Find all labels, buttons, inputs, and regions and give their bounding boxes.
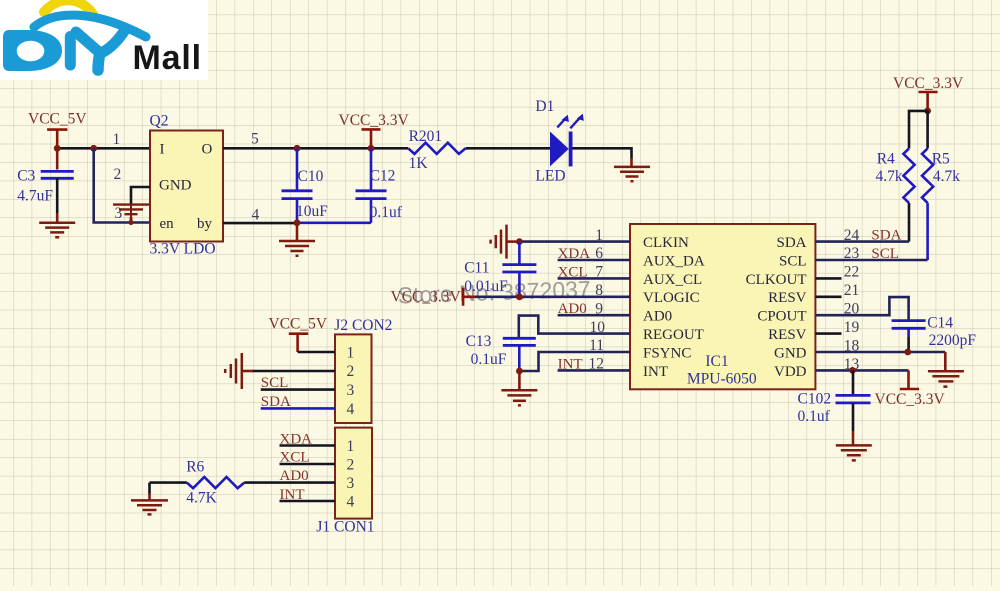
wire VCC to R4 (909, 111, 928, 148)
svg-text:5: 5 (251, 131, 259, 148)
wire SDA pin24 (815, 240, 909, 243)
power flag VCC_5V at J2 (269, 316, 328, 352)
voltage regulator Q2 (150, 112, 224, 257)
svg-text:CPOUT: CPOUT (757, 309, 806, 325)
junction dot B (90, 145, 97, 152)
wire RESV pin21 stub (815, 295, 841, 298)
svg-text:1K: 1K (409, 155, 429, 172)
wire VLOGIC pin8 (475, 295, 630, 298)
wire LED cathode to ground (573, 148, 632, 158)
junction dot CLKIN (516, 238, 523, 245)
power flag VCC_3.3V at VLOGIC (391, 288, 477, 306)
wire CLKOUT pin22 stub (815, 277, 841, 280)
svg-text:by: by (197, 216, 213, 232)
svg-text:INT: INT (643, 364, 668, 380)
resistor R4 (876, 148, 915, 203)
svg-text:4.7K: 4.7K (186, 490, 217, 507)
svg-text:2: 2 (113, 166, 121, 183)
wire 3.3V rail from Q2 pin5 (223, 147, 408, 150)
ground at CLKIN (491, 225, 520, 259)
net label INT at J1 (280, 487, 305, 503)
svg-text:LED: LED (535, 168, 565, 185)
junction dot C10 top (294, 145, 301, 152)
svg-text:CLKOUT: CLKOUT (746, 272, 807, 288)
svg-text:C3: C3 (17, 167, 35, 184)
capacitor C3 (17, 148, 73, 213)
svg-text:C10: C10 (298, 168, 324, 185)
svg-text:XCL: XCL (280, 450, 310, 466)
svg-text:4.7k: 4.7k (876, 168, 903, 185)
junction dot C102 top (849, 367, 856, 374)
capacitor C14 (892, 315, 977, 353)
net label SCL right (871, 246, 899, 262)
resistor R6 (186, 459, 244, 507)
svg-text:RESV: RESV (768, 327, 807, 343)
svg-text:VLOGIC: VLOGIC (643, 290, 700, 306)
wire J2 pin4 SDA (261, 407, 335, 410)
pin number 3 of Q2 (115, 205, 123, 222)
pin number 1 of Q2 (113, 131, 121, 148)
junction dot C10 bottom (294, 219, 301, 226)
junction dot A (54, 145, 61, 152)
capacitor C13 (466, 333, 536, 371)
svg-text:D1: D1 (535, 98, 554, 115)
wire VDD pin13 (815, 369, 908, 372)
net label AD0 at IC (558, 301, 587, 317)
wire VCC to R5 (926, 111, 929, 148)
logo DIYmall (0, 0, 208, 80)
LED D1 (535, 98, 583, 185)
svg-text:21: 21 (844, 282, 860, 299)
svg-text:CLKIN: CLKIN (643, 235, 689, 251)
wire AD0 pin9 (558, 314, 630, 317)
svg-text:VCC_3.3V: VCC_3.3V (893, 75, 964, 92)
ground below C102 (836, 431, 872, 460)
junction dot VCC top right (924, 108, 931, 115)
wire en net vertical (94, 148, 150, 222)
power flag VCC_3.3V above C12 (339, 112, 410, 149)
power flag VCC_3.3V top right (893, 75, 964, 111)
svg-text:2200pF: 2200pF (929, 332, 977, 349)
svg-text:J2 CON2: J2 CON2 (334, 317, 392, 334)
wire J1 pin2 (280, 463, 336, 466)
pin number 4 of Q2 (252, 207, 260, 224)
svg-text:J1 CON1: J1 CON1 (316, 519, 374, 536)
capacitor C10 (282, 148, 329, 223)
pin number 2 of Q2 (113, 166, 121, 183)
ground left of R6 (131, 493, 168, 514)
wire Q2 pin2 to ground (131, 187, 150, 205)
wire REGOUT pin10 jog to C13 (519, 316, 630, 339)
power flag VCC_3.3V bottom right (875, 370, 946, 408)
svg-text:0.1uf: 0.1uf (798, 408, 831, 425)
svg-text:19: 19 (844, 319, 860, 336)
connector J1 CON1 (316, 428, 374, 536)
svg-text:0.01uF: 0.01uF (464, 278, 508, 295)
svg-text:C102: C102 (798, 390, 832, 407)
svg-text:2: 2 (347, 363, 355, 380)
wire R5 bottom to SCL (926, 203, 929, 260)
wire CLKIN pin1 (519, 240, 630, 243)
net label SCL at J2 (261, 375, 289, 391)
connector J2 CON2 (334, 317, 392, 423)
wire INT pin12 (558, 369, 630, 372)
net label XCL at IC (558, 264, 588, 280)
wire node VCC_5V rail (57, 147, 150, 150)
wire Q2 pin4 by to C10 bottom (223, 222, 297, 225)
svg-text:4: 4 (347, 401, 355, 418)
svg-text:0.1uF: 0.1uF (471, 351, 507, 368)
pin numbers left of IC1 (589, 227, 606, 373)
pin number 5 of Q2 (251, 131, 259, 148)
wire J1 pin4 (280, 500, 336, 503)
svg-text:AUX_CL: AUX_CL (643, 272, 702, 288)
svg-text:4.7uF: 4.7uF (17, 187, 53, 204)
svg-text:3: 3 (347, 475, 355, 492)
svg-text:I: I (160, 142, 165, 158)
wire J2 pin1 (298, 351, 335, 354)
wire GND pin18 (815, 351, 945, 354)
junction dot C11 bottom (516, 293, 523, 300)
svg-text:R201: R201 (409, 128, 443, 145)
ground below C3 (39, 213, 75, 237)
wire AUX_DA pin6 (558, 259, 630, 262)
svg-text:IC1: IC1 (705, 353, 728, 370)
svg-text:AUX_DA: AUX_DA (643, 253, 705, 269)
svg-text:AD0: AD0 (643, 309, 672, 325)
svg-text:VCC_5V: VCC_5V (28, 111, 87, 128)
svg-text:2: 2 (347, 456, 355, 473)
svg-text:4.7k: 4.7k (933, 168, 960, 185)
net label AD0 at J1 (280, 468, 309, 484)
svg-text:VDD: VDD (774, 364, 807, 380)
svg-text:VCC_3.3V: VCC_3.3V (875, 391, 946, 408)
svg-text:3: 3 (347, 382, 355, 399)
svg-text:SDA: SDA (776, 235, 806, 251)
svg-text:R6: R6 (186, 459, 204, 476)
svg-text:0.1uf: 0.1uf (370, 204, 403, 221)
capacitor C12 (356, 148, 403, 223)
svg-text:GND: GND (159, 178, 192, 194)
svg-text:MPU-6050: MPU-6050 (687, 371, 757, 388)
svg-text:VCC_3.3V: VCC_3.3V (391, 288, 462, 305)
svg-text:INT: INT (280, 487, 305, 503)
svg-text:SCL: SCL (261, 375, 289, 391)
ground right of LED (614, 158, 650, 181)
net label SDA at J2 (261, 394, 291, 410)
wire R6 to J1 pin3 (244, 481, 335, 484)
power flag VCC_5V (28, 111, 87, 149)
svg-text:1: 1 (347, 344, 355, 361)
wire J2 pin3 SCL (261, 388, 335, 391)
svg-text:en: en (160, 216, 175, 232)
net label XDA at IC (558, 246, 591, 262)
wire RESV pin19 stub (815, 332, 841, 335)
wire SCL pin23 (815, 259, 927, 262)
wire FSYNC pin11 jog to C13 bottom (519, 352, 630, 371)
svg-text:C14: C14 (927, 315, 953, 332)
svg-text:3: 3 (115, 205, 123, 222)
svg-text:C11: C11 (464, 260, 489, 277)
resistor R201 (408, 128, 465, 172)
svg-text:VCC_5V: VCC_5V (269, 316, 328, 333)
svg-text:R4: R4 (877, 151, 895, 168)
capacitor C102 (798, 370, 871, 431)
capacitor C11 (464, 242, 536, 297)
svg-text:C13: C13 (466, 333, 492, 350)
net label XCL at J1 (280, 450, 310, 466)
wire AUX_CL pin7 (558, 277, 630, 280)
wire R4 bottom to SDA (908, 203, 911, 242)
junction dot C14 bottom (904, 349, 911, 356)
wire C10 bottom to C12 bottom (297, 222, 371, 225)
IC U1 MPU-6050 (630, 224, 815, 389)
wire J1 pin1 (280, 444, 336, 447)
net label SDA right (871, 228, 901, 244)
svg-text:O: O (202, 142, 213, 158)
wire ground to R6 (150, 483, 187, 495)
wire CPOUT pin20 jog to C14 (815, 297, 908, 321)
svg-text:3.3V LDO: 3.3V LDO (150, 240, 216, 257)
net label XDA at J1 (280, 432, 313, 448)
svg-text:Mall: Mall (133, 39, 202, 77)
ground below C13 (501, 371, 537, 405)
ground at Q2 pin2 (113, 205, 149, 225)
svg-text:GND: GND (774, 345, 807, 361)
svg-text:4: 4 (347, 493, 355, 510)
ground at J2 pin2 (225, 353, 253, 389)
junction dot C13 bottom (516, 368, 523, 375)
svg-text:22: 22 (844, 264, 860, 281)
svg-text:4: 4 (252, 207, 260, 224)
svg-text:R5: R5 (932, 151, 950, 168)
svg-text:VCC_3.3V: VCC_3.3V (339, 112, 410, 129)
ground at pin18 (928, 352, 964, 387)
junction dot C12 top (368, 145, 375, 152)
svg-text:Q2: Q2 (150, 112, 169, 129)
ground below C10 (279, 223, 315, 256)
svg-text:1: 1 (347, 438, 355, 455)
pin numbers right of IC1 (844, 227, 860, 373)
svg-text:FSYNC: FSYNC (643, 345, 691, 361)
svg-text:10uF: 10uF (296, 203, 328, 220)
svg-text:SCL: SCL (779, 253, 807, 269)
resistor R5 (922, 148, 960, 203)
wire R201 to LED (466, 147, 550, 150)
wire J2 pin2 (252, 370, 335, 373)
svg-text:RESV: RESV (768, 290, 807, 306)
svg-text:1: 1 (113, 131, 121, 148)
svg-text:XDA: XDA (280, 432, 313, 448)
net label INT at IC (558, 356, 583, 372)
svg-text:C12: C12 (370, 168, 396, 185)
svg-text:SDA: SDA (261, 394, 291, 410)
svg-text:REGOUT: REGOUT (643, 327, 704, 343)
